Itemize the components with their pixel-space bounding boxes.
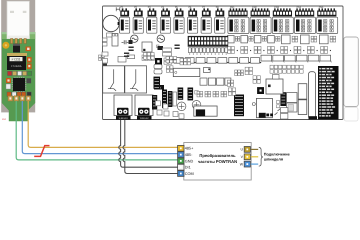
svg-text:Преобразователь: Преобразователь: [199, 153, 236, 158]
svg-text:cnc: cnc: [2, 118, 7, 121]
svg-text:FT232: FT232: [12, 57, 21, 61]
svg-text:Подключение: Подключение: [264, 152, 290, 156]
svg-text:485+: 485+: [185, 147, 194, 151]
svg-text:GND: GND: [185, 159, 194, 163]
svg-text:частоты POWTRAN: частоты POWTRAN: [198, 159, 237, 164]
svg-text:DI1: DI1: [185, 166, 191, 170]
svg-text:шпинделя: шпинделя: [264, 158, 283, 162]
svg-text:Y-RELAY: Y-RELAY: [140, 117, 150, 120]
svg-text:COM: COM: [185, 172, 194, 176]
svg-text:485-: 485-: [185, 153, 193, 157]
svg-text:FT232RL: FT232RL: [11, 65, 22, 68]
svg-text:X-RELAY: X-RELAY: [119, 117, 129, 120]
